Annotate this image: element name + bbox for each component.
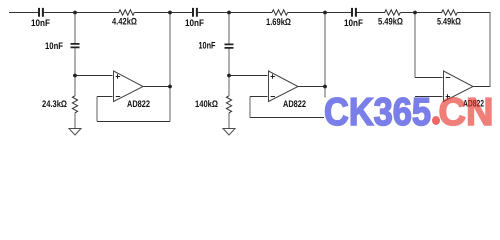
svg-text:10nF: 10nF <box>344 18 363 29</box>
svg-text:5.49kΩ: 5.49kΩ <box>437 17 461 28</box>
svg-text:10nF: 10nF <box>45 41 63 52</box>
svg-text:CK365: CK365 <box>324 91 431 134</box>
svg-text:AD822: AD822 <box>127 99 150 110</box>
svg-text:24.3kΩ: 24.3kΩ <box>42 99 67 110</box>
svg-text:CN: CN <box>439 91 494 134</box>
svg-text:10nF: 10nF <box>185 18 204 29</box>
svg-text:4.42kΩ: 4.42kΩ <box>112 17 137 28</box>
svg-text:10nF: 10nF <box>31 18 50 29</box>
svg-text:140kΩ: 140kΩ <box>195 99 218 110</box>
svg-text:5.49kΩ: 5.49kΩ <box>378 17 403 28</box>
svg-text:10nF: 10nF <box>199 41 216 52</box>
svg-text:AD822: AD822 <box>283 99 306 110</box>
svg-text:1.69kΩ: 1.69kΩ <box>266 17 291 28</box>
